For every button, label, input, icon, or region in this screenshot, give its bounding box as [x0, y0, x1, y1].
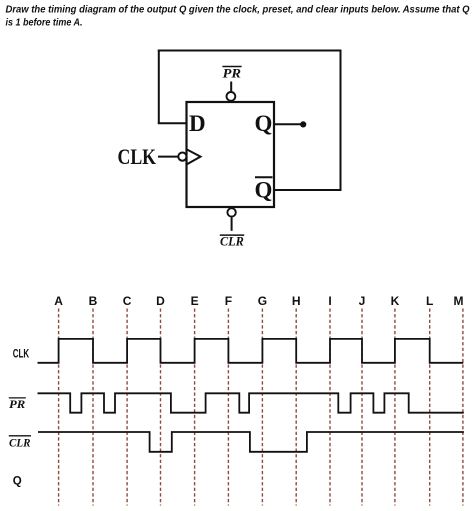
wire feedback left vertical: [158, 50, 160, 124]
wire to D input: [158, 122, 187, 124]
svg-text:I: I: [328, 294, 331, 308]
CLR label (overbar): [220, 234, 244, 249]
wire Q output: [274, 123, 301, 125]
timeline G dashed: [261, 309, 263, 506]
svg-text:Q: Q: [255, 111, 273, 136]
svg-text:CLR: CLR: [220, 234, 244, 249]
svg-text:C: C: [123, 294, 132, 308]
terminal dot on Q: [300, 121, 306, 127]
wire Qbar to right: [274, 189, 342, 191]
wire feedback right vertical: [340, 50, 342, 192]
svg-text:L: L: [426, 294, 433, 308]
timeline E dashed: [194, 309, 196, 506]
wire PR stub: [230, 82, 232, 92]
svg-text:F: F: [225, 294, 232, 308]
timeline M dashed: [462, 309, 464, 506]
svg-text:D: D: [189, 111, 206, 136]
clear bubble: [227, 208, 235, 216]
timeline I dashed: [329, 309, 331, 506]
D flip-flop U1 body: [187, 102, 275, 207]
timeline J dashed: [361, 309, 363, 506]
svg-text:G: G: [258, 294, 267, 308]
svg-text:A: A: [54, 294, 63, 308]
svg-text:PR: PR: [9, 399, 26, 411]
svg-text:M: M: [454, 294, 464, 308]
svg-text:CLR: CLR: [9, 437, 31, 449]
wire CLK to bubble: [158, 156, 178, 158]
wire CLR stub: [231, 217, 233, 231]
svg-text:PR: PR: [223, 66, 242, 81]
svg-text:E: E: [191, 294, 199, 308]
CLR signal label (overbar): [9, 436, 31, 450]
svg-text:is 1 before time A.: is 1 before time A.: [6, 18, 83, 29]
svg-text:Q: Q: [255, 178, 273, 203]
timeline C dashed: [126, 309, 128, 506]
svg-text:H: H: [292, 294, 301, 308]
svg-text:Q: Q: [13, 476, 22, 488]
timeline H dashed: [295, 309, 297, 506]
timeline B dashed: [92, 309, 94, 506]
timeline L dashed: [429, 309, 431, 506]
svg-text:CLK: CLK: [13, 349, 30, 361]
wire feedback top: [158, 50, 342, 52]
svg-text:CLK: CLK: [118, 144, 157, 169]
clock triangle: [187, 149, 201, 164]
clock bubble: [178, 153, 186, 161]
svg-text:J: J: [359, 294, 366, 308]
svg-text:K: K: [391, 294, 400, 308]
PR waveform: [38, 393, 464, 412]
svg-text:D: D: [156, 294, 165, 308]
svg-text:B: B: [89, 294, 98, 308]
timeline A dashed: [58, 309, 60, 506]
PR signal label (overbar): [9, 398, 26, 411]
preset bubble: [227, 92, 236, 101]
timeline K dashed: [394, 309, 396, 506]
timeline D dashed: [160, 309, 162, 506]
CLR waveform: [38, 432, 464, 452]
pin Qbar label: [255, 177, 273, 202]
PR label (overbar): [222, 66, 241, 81]
CLK waveform: [38, 339, 464, 363]
timeline F dashed: [227, 309, 229, 506]
svg-text:Draw the timing diagram of the: Draw the timing diagram of the output Q …: [6, 4, 470, 15]
